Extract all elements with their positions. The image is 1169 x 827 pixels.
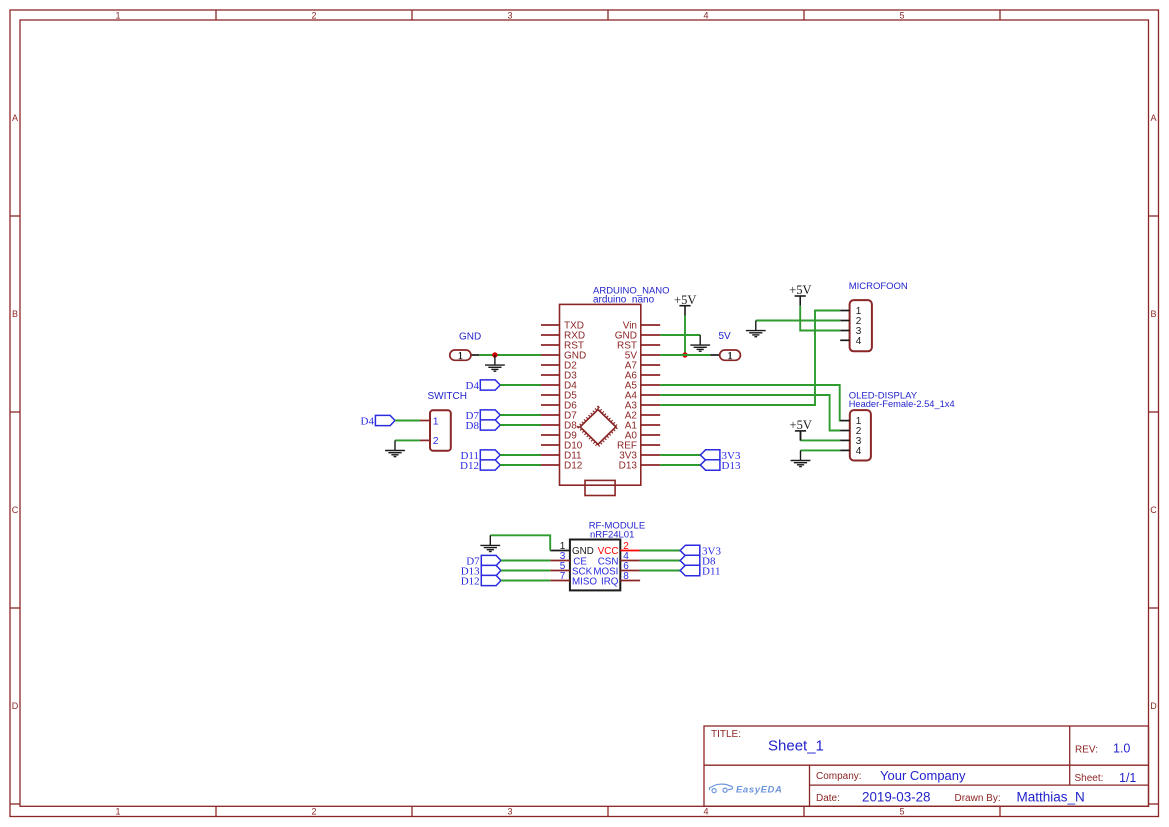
svg-text:D11: D11 (702, 565, 721, 577)
netflag D8 (466, 420, 501, 432)
netflag D4 (to Arduino D4) (466, 380, 501, 392)
svg-text:Your Company: Your Company (880, 768, 966, 783)
ground symbol right of Arduino GND pin (690, 335, 710, 351)
svg-text:3: 3 (507, 807, 512, 817)
svg-text:C: C (12, 505, 19, 515)
module U2 pin labels left (572, 546, 597, 587)
svg-text:MICROFOON: MICROFOON (849, 281, 908, 292)
IC U1 usb connector rect (585, 480, 615, 495)
svg-text:5V: 5V (719, 331, 732, 342)
netflag D11 (460, 450, 500, 462)
header P1 MICROFOON body (850, 300, 872, 351)
svg-text:4: 4 (703, 807, 708, 817)
svg-text:8: 8 (623, 571, 629, 582)
svg-text:IRQ: IRQ (601, 577, 619, 588)
svg-text:Matthias_N: Matthias_N (1017, 790, 1085, 805)
wire net A3 (Arduino A3 to MICROFOON pin1) (660, 311, 840, 406)
wire Arduino D13 pin to netflag (660, 464, 700, 466)
module U2 pin numbers right (623, 541, 629, 582)
svg-text:C: C (1150, 505, 1157, 515)
switch S1 body (430, 410, 451, 450)
power flag +5V (left of OLED) (790, 418, 812, 441)
svg-text:SWITCH: SWITCH (428, 391, 467, 402)
IC U1 chip diamond glyph (579, 408, 617, 446)
wire Arduino GND pin to ground (660, 334, 700, 336)
switch S1 pin stubs (420, 421, 430, 441)
wire Arduino 3V3 pin to netflag (660, 454, 700, 456)
header P2 OLED-DISPLAY body (850, 410, 871, 460)
junction on GND net (492, 352, 497, 357)
netflag D8 (right of RF) (680, 555, 716, 567)
junction on 5V net (682, 352, 687, 357)
svg-text:5: 5 (899, 807, 904, 817)
svg-text:Drawn By:: Drawn By: (955, 793, 1001, 804)
svg-text:D13: D13 (619, 461, 638, 472)
svg-text:B: B (12, 309, 18, 319)
IC U1 right pin labels (615, 321, 638, 472)
netflag D12 (460, 460, 500, 472)
wire OLED pin4 to ground (801, 449, 841, 451)
IC U1 ARDUINO_NANO body (560, 304, 641, 485)
wire D12 flag to RF pin7 (501, 580, 550, 582)
svg-text:MISO: MISO (572, 577, 597, 588)
header P1 pin stubs (840, 311, 849, 341)
svg-text:D12: D12 (564, 461, 583, 472)
svg-text:+5V: +5V (674, 293, 696, 307)
wire +5V to OLED pin3 (801, 439, 841, 441)
svg-text:D13: D13 (722, 460, 741, 472)
title block (704, 726, 1149, 806)
header P2 pin numbers (856, 416, 862, 457)
module U2 left pin stubs (550, 551, 570, 581)
IC U1 left pin labels (564, 321, 586, 472)
svg-text:4: 4 (703, 11, 708, 21)
svg-text:EasyEDA: EasyEDA (736, 785, 782, 796)
netflag D13 (right of Arduino) (700, 460, 741, 472)
wire net A5 (Arduino A5 to OLED pin1) (660, 385, 840, 421)
wire RF pin6 to D11 flag (640, 570, 681, 572)
svg-text:D: D (12, 701, 19, 711)
module U2 body (570, 540, 620, 591)
svg-text:7: 7 (560, 571, 566, 582)
module U2 pin labels right (593, 546, 618, 587)
svg-text:Date:: Date: (816, 793, 840, 804)
header P1 pin numbers (856, 306, 862, 347)
svg-text:1: 1 (433, 415, 439, 427)
IC U1 left pins (541, 325, 560, 465)
netflag D7 (to RF CE) (466, 555, 501, 567)
svg-text:Sheet:: Sheet: (1075, 773, 1104, 784)
netflag D11 (right of RF) (680, 565, 720, 577)
wire net GND left (oval to Arduino GND pin) (471, 354, 541, 356)
svg-text:4: 4 (856, 446, 862, 457)
svg-text:B: B (1150, 309, 1156, 319)
wire D8 to Arduino (500, 424, 541, 426)
svg-text:5: 5 (899, 11, 904, 21)
wire D4 to Arduino (500, 384, 541, 386)
svg-text:A: A (1150, 113, 1156, 123)
wire D12 to Arduino (500, 464, 541, 466)
netflag D7 (466, 410, 501, 422)
header P2 pin stubs (840, 421, 850, 451)
netflag 3V3 (right of RF) (680, 545, 721, 557)
title block texts (711, 729, 1103, 804)
wire D7 to Arduino (500, 414, 541, 416)
netflag D12 (to RF MISO) (461, 575, 501, 587)
wire MICROFOON pin2 to ground (756, 320, 840, 322)
svg-text:2: 2 (311, 807, 316, 817)
wire switch pin2 to ground (395, 439, 420, 441)
svg-text:1: 1 (115, 807, 120, 817)
svg-text:D12: D12 (461, 575, 480, 587)
IC U1 ARDUINO_NANO name label (593, 286, 670, 306)
svg-text:4: 4 (856, 336, 862, 347)
wire RF pin1 to ground (490, 535, 550, 550)
IC U1 right pins (641, 325, 660, 465)
ground symbol left of RF module (480, 535, 500, 551)
svg-text:1: 1 (115, 11, 120, 21)
svg-text:+5V: +5V (789, 283, 811, 297)
svg-text:2019-03-28: 2019-03-28 (862, 790, 931, 805)
svg-text:D4: D4 (466, 380, 480, 392)
netflag D4 (to switch) (361, 415, 395, 427)
wire D11 to Arduino (500, 454, 541, 456)
connector pin oval 5V (720, 350, 741, 362)
svg-text:A: A (12, 113, 18, 123)
ground symbol left of MICROFOON (746, 321, 766, 337)
wire 5V net (Arduino 5V pin to oval) (660, 354, 720, 356)
svg-text:2: 2 (311, 11, 316, 21)
svg-text:GND: GND (459, 332, 481, 343)
wire +5V down to 5V net (684, 316, 686, 356)
svg-text:REV:: REV: (1075, 745, 1098, 756)
svg-text:2: 2 (433, 435, 439, 447)
ground symbol below GND junction (485, 355, 505, 371)
wire RF pin2 to 3V3 flag (640, 550, 681, 552)
svg-text:Company:: Company: (816, 771, 862, 782)
svg-text:TITLE:: TITLE: (711, 729, 741, 740)
netflag D13 (to RF SCK) (461, 565, 501, 577)
ground symbol below switch pin2 (385, 440, 405, 456)
power flag +5V (above Arduino 5V pin) (674, 293, 696, 316)
wire D7 flag to RF pin3 (501, 560, 550, 562)
svg-text:D8: D8 (466, 420, 480, 432)
svg-text:D: D (1150, 701, 1157, 711)
svg-text:D12: D12 (460, 460, 479, 472)
svg-text:1.0: 1.0 (1113, 742, 1130, 756)
ground symbol below OLED pin4 wire (791, 450, 811, 466)
EasyEDA logo (709, 784, 782, 795)
svg-text:D4: D4 (361, 415, 375, 427)
svg-text:1: 1 (458, 351, 463, 362)
wire +5V to MICROFOON pin3 (800, 306, 840, 331)
netflag 3V3 (right of Arduino) (700, 450, 741, 462)
svg-text:Sheet_1: Sheet_1 (768, 738, 824, 755)
power flag +5V (above MICROFOON) (789, 283, 811, 306)
svg-text:3: 3 (507, 11, 512, 21)
svg-text:Header-Female-2.54_1x4: Header-Female-2.54_1x4 (849, 399, 955, 409)
switch S1 pin labels (433, 415, 439, 447)
svg-text:1: 1 (728, 351, 733, 362)
module U2 pin numbers left (560, 541, 566, 582)
wire RF pin4 to D8 flag (640, 560, 681, 562)
connector pin oval GND (450, 350, 471, 362)
svg-text:+5V: +5V (790, 418, 812, 432)
wire D13 flag to RF pin5 (501, 570, 550, 572)
wire D4 flag to switch pin1 (395, 420, 420, 422)
svg-text:1/1: 1/1 (1119, 771, 1136, 785)
module U2 right pin stubs (620, 551, 640, 581)
wire net A4 (Arduino A4 to OLED pin2) (660, 395, 840, 431)
